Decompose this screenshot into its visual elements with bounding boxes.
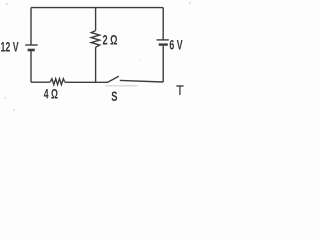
svg-text:12 V: 12 V [1,39,20,55]
battery V1 12V short plate [28,49,35,52]
svg-text:S: S [111,88,117,104]
switch S lever [107,76,119,82]
wire right lower [162,46,164,82]
battery V2 6V long plate [157,39,169,41]
wire right upper [162,8,164,40]
svg-text:6 V: 6 V [169,37,183,53]
cursor T mark [176,86,183,95]
battery V1 12V long plate [25,44,37,46]
resistor R1 2ohm [91,31,99,48]
wire left upper [30,8,32,45]
faint pink specks [4,2,191,111]
wire middle upper [95,8,97,31]
wire bottom middle [65,81,108,83]
wire bottom left [31,81,50,83]
scan ghost streak under switch [106,85,138,87]
paper speckle noise [19,6,185,105]
wire left lower [30,50,32,82]
resistor R2 4ohm [50,79,64,85]
battery V2 6V short plate [159,43,168,45]
svg-text:2 Ω: 2 Ω [103,32,118,48]
svg-text:4 Ω: 4 Ω [44,86,58,102]
wire top [31,7,163,9]
wire middle lower [95,47,97,82]
switch S right contact wire [120,80,163,82]
